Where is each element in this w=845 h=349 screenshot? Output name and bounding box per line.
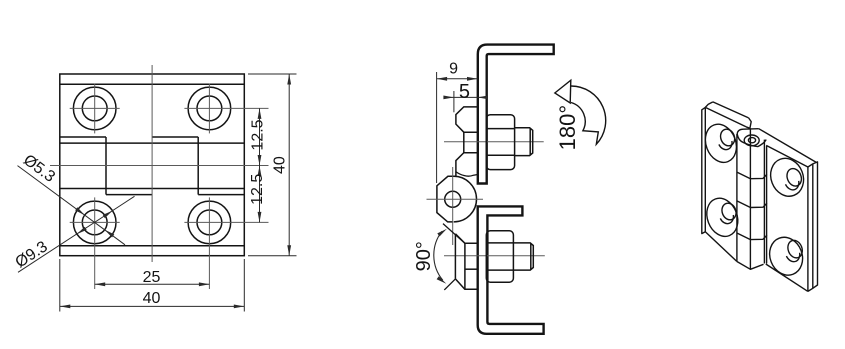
knuckle top line segments bbox=[60, 136, 106, 138]
leader dia 5.3 bbox=[18, 152, 126, 245]
vertical center line bbox=[151, 65, 153, 262]
left leaf countersink top hole bbox=[700, 120, 742, 167]
right leaf side strip edges bbox=[808, 162, 818, 292]
top fold line bbox=[60, 83, 245, 85]
left leaf top corner bevel bbox=[705, 102, 713, 108]
dim 40 right bbox=[248, 74, 297, 256]
right leaf front top edge bbox=[766, 145, 808, 167]
center lines of front view bbox=[50, 65, 269, 289]
svg-text:12.5: 12.5 bbox=[249, 119, 266, 150]
right leaf back top edge bbox=[759, 129, 817, 163]
hole cross marks top-left bbox=[70, 107, 120, 109]
svg-text:40: 40 bbox=[143, 290, 161, 307]
hole cross marks bottom-left (vertical extends down as ext line) bbox=[70, 221, 120, 223]
hole cross marks top-right (horizontal extends right as ext line) bbox=[184, 107, 268, 109]
hole top-left: counterbore + hole bbox=[73, 87, 116, 130]
horizontal center line bbox=[50, 165, 269, 167]
dim 5 bbox=[443, 81, 488, 113]
right leaf countersink top hole bbox=[765, 154, 809, 202]
open leaf 45deg line (top) bbox=[443, 224, 465, 244]
knuckle seam 3 bbox=[737, 233, 767, 240]
hinge knuckle (side) bbox=[437, 176, 477, 222]
left leaf side face strip bbox=[702, 107, 706, 233]
top bolt axis bbox=[444, 141, 544, 143]
hole cross marks bottom-right bbox=[184, 221, 268, 223]
pivot pin circle bbox=[445, 191, 461, 207]
pin boss top face lower outline bbox=[737, 134, 766, 147]
svg-text:12.5: 12.5 bbox=[249, 174, 266, 205]
barrel right silhouette bbox=[763, 140, 765, 264]
plate outline 40x40 bbox=[60, 74, 245, 256]
leader dia 9.3 bbox=[12, 196, 134, 272]
right leaf front right edge bbox=[807, 167, 809, 291]
dim 9 bbox=[437, 60, 478, 183]
bottom screw shank bbox=[513, 243, 533, 270]
knuckle lower full line bbox=[60, 188, 245, 190]
svg-text:180°: 180° bbox=[555, 105, 580, 151]
svg-text:9: 9 bbox=[449, 60, 458, 77]
dim 12.5 upper bbox=[249, 108, 266, 165]
right leaf countersink bottom hole bbox=[764, 232, 808, 280]
knuckle center lines bbox=[452, 167, 454, 245]
bottom bolt axis bbox=[444, 255, 545, 257]
hole bottom-left bbox=[73, 201, 116, 244]
open leaf 45deg line (bottom slash) bbox=[444, 279, 455, 290]
svg-text:25: 25 bbox=[143, 269, 161, 286]
barrel bottom bbox=[737, 262, 764, 270]
knuckle vertical joints bbox=[105, 137, 107, 195]
left leaf front face left edge bbox=[705, 107, 737, 261]
bottom fold line bbox=[60, 245, 245, 247]
right leaf bottom front edge bbox=[766, 264, 808, 291]
svg-text:90°: 90° bbox=[413, 241, 435, 271]
svg-text:40: 40 bbox=[271, 156, 288, 174]
top hex nut bbox=[486, 115, 514, 170]
bottom screw head bbox=[455, 234, 477, 289]
left leaf top face outer edge bbox=[705, 107, 746, 126]
break (wavy) line top leaf bbox=[456, 172, 478, 177]
knuckle seam 1 bbox=[737, 172, 767, 179]
180 deg rotation arrow body bbox=[555, 80, 606, 144]
pin boss top face upper outline bbox=[737, 129, 759, 134]
knuckle seam 2 bbox=[737, 201, 767, 208]
left leaf top face inner edge bbox=[713, 102, 749, 118]
left leaf countersink bottom hole bbox=[701, 194, 743, 241]
knuckle bottom line segments bbox=[106, 194, 152, 196]
barrel front edge bbox=[749, 128, 751, 269]
pin hole ellipses bbox=[744, 135, 759, 146]
top screw head bbox=[456, 107, 478, 176]
left leaf top end face bbox=[746, 118, 751, 128]
barrel left silhouette bbox=[736, 134, 738, 262]
knuckle upper full line bbox=[60, 142, 245, 144]
hole top-right bbox=[188, 87, 231, 130]
bottom mounting bracket (C channel) bbox=[478, 206, 544, 333]
dim 40 bottom bbox=[60, 259, 245, 312]
dim 12.5 lower bbox=[249, 166, 266, 223]
dimensions of front view bbox=[12, 74, 296, 312]
90 deg arc with arrows bbox=[434, 231, 443, 280]
bottom hex nut bbox=[486, 231, 513, 282]
svg-text:5: 5 bbox=[459, 81, 470, 103]
top mounting bracket bbox=[478, 45, 554, 184]
dim 25 bbox=[95, 269, 210, 286]
top screw shank bbox=[515, 128, 533, 156]
hole bottom-right bbox=[188, 201, 231, 244]
